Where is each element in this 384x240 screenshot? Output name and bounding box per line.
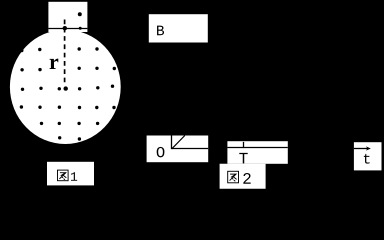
- B axis label box (figure 2): [149, 14, 208, 42]
- t axis segment in T box: [227, 147, 287, 149]
- glyph tu (figure) of caption 2: [228, 171, 239, 183]
- label r: [50, 59, 59, 69]
- T tick mark: [243, 142, 245, 148]
- t axis arrowhead: [366, 146, 371, 150]
- field dots row y=69: [20, 67, 116, 72]
- center dot of circle: [63, 86, 67, 90]
- small dot on box bottom edge right: [79, 27, 82, 30]
- figure 1 caption box: [47, 162, 94, 186]
- small source box at top: [48, 2, 87, 32]
- label O: [157, 147, 165, 158]
- diagonal graph segment: [172, 136, 185, 149]
- B axis segment in O box: [171, 136, 173, 150]
- field dots row y=123: [40, 122, 100, 125]
- T tick box: [227, 141, 287, 164]
- field region circle (figure 1): [10, 30, 121, 144]
- field dots row y=88: [21, 85, 114, 92]
- dashed radius line r: [64, 20, 66, 85]
- glyph tu (figure) of caption 1: [58, 170, 69, 181]
- junction dot where dashed radius meets box edge: [63, 26, 67, 30]
- label T: [239, 153, 247, 164]
- field dots row y=107: [20, 105, 116, 109]
- box bottom edge line: [48, 28, 87, 30]
- figure 2 caption box: [220, 164, 266, 189]
- caption text 2: [243, 173, 250, 184]
- t axis arrow box: [354, 142, 382, 170]
- field dots row y=49: [20, 47, 99, 52]
- dot inside top box: [78, 12, 82, 16]
- t axis arrow line: [354, 148, 368, 150]
- label B: [157, 26, 164, 36]
- t axis segment in O box: [172, 148, 209, 150]
- origin box with O: [147, 136, 209, 163]
- caption text 1: [71, 172, 77, 181]
- label t: [364, 154, 370, 164]
- field dots row y=138: [58, 136, 81, 141]
